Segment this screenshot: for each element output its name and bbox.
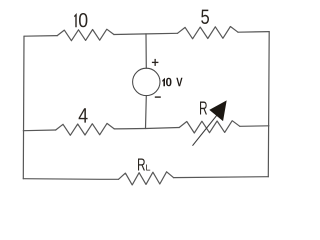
wire top (24, 35, 57, 38)
wire source bottom (145, 96, 148, 129)
label R (200, 102, 207, 115)
label 10 (74, 13, 87, 27)
wire middle center (114, 128, 179, 129)
resistor R2 value 5 (178, 27, 239, 39)
wire bottom left (23, 178, 118, 181)
arrow shaft (193, 113, 219, 146)
wire right vertical (267, 32, 270, 177)
variable resistor R (179, 121, 240, 133)
label RL (138, 159, 150, 171)
wire middle right (240, 125, 269, 128)
arrow head (210, 101, 226, 120)
label 10 V (162, 78, 182, 87)
resistor RL (119, 172, 174, 185)
wire top mid (114, 33, 178, 34)
wire top right (238, 31, 269, 34)
label 5 (201, 10, 209, 24)
plus terminal (152, 59, 159, 66)
resistor R3 value 4 (56, 123, 115, 135)
wire bottom right (174, 176, 269, 179)
voltage source V1 circle (133, 68, 160, 95)
wire middle left (23, 129, 55, 132)
wire left vertical (22, 36, 25, 179)
minus terminal (155, 96, 161, 98)
wire source top (145, 34, 147, 68)
label 4 (79, 108, 88, 122)
resistor R1 value 10 (57, 29, 114, 41)
